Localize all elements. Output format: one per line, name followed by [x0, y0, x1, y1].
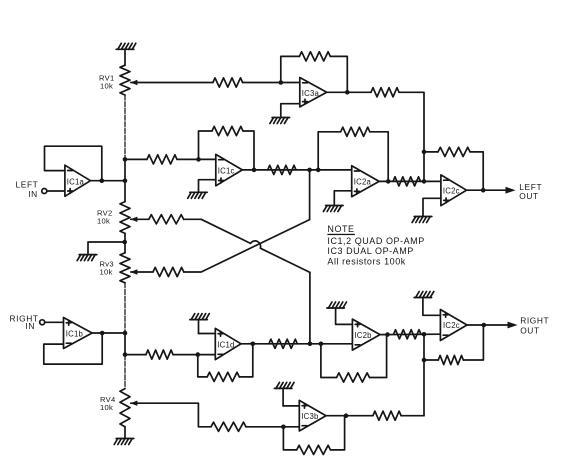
svg-text:OUT: OUT — [519, 191, 538, 201]
wire — [242, 169, 351, 171]
resistor — [393, 177, 421, 186]
wire — [283, 427, 296, 450]
node — [196, 157, 201, 162]
wire — [199, 333, 216, 335]
svg-text:OUT: OUT — [520, 325, 539, 335]
ground — [327, 302, 347, 308]
terminal — [40, 320, 45, 325]
wire — [331, 416, 345, 450]
wire — [45, 146, 102, 181]
resistor — [299, 52, 330, 61]
wire — [379, 180, 441, 182]
wire — [177, 158, 216, 160]
wire — [246, 426, 299, 428]
potentiometer RV4 — [120, 389, 198, 427]
resistor — [394, 330, 422, 339]
wire — [283, 405, 299, 407]
svg-text:IN: IN — [28, 189, 38, 199]
ground — [414, 292, 434, 298]
resistor — [147, 155, 177, 164]
wire — [124, 333, 126, 355]
svg-text:10k: 10k — [100, 81, 113, 90]
wire — [243, 131, 254, 170]
wire — [88, 242, 125, 255]
resistor — [297, 445, 331, 454]
wire — [424, 359, 438, 361]
svg-text:NOTE: NOTE — [327, 224, 354, 234]
op-amp IC1d — [215, 328, 241, 359]
label LEFT OUT — [519, 182, 542, 201]
ground — [274, 382, 294, 388]
wire — [184, 218, 202, 220]
wire — [124, 159, 126, 201]
resistor — [212, 126, 243, 135]
resistor — [149, 215, 184, 224]
wire — [401, 415, 424, 417]
ground — [270, 118, 290, 124]
resistor — [438, 147, 470, 156]
ground — [116, 43, 136, 65]
ground — [412, 217, 432, 223]
resistor — [337, 373, 370, 382]
op-amp IC3b — [299, 400, 326, 431]
label RIGHT IN — [10, 313, 39, 331]
wire — [282, 388, 284, 406]
wire — [198, 320, 200, 334]
label RIGHT OUT — [520, 316, 549, 336]
wire — [326, 415, 373, 417]
potentiometer RV1 — [120, 65, 213, 95]
wire — [91, 180, 126, 182]
label RV2 10k — [97, 208, 113, 225]
op-amp IC2c — [441, 175, 467, 206]
wire — [44, 333, 102, 364]
wire — [399, 92, 424, 181]
wire — [124, 355, 126, 389]
terminal — [42, 189, 47, 194]
wire — [470, 152, 483, 190]
node — [316, 168, 321, 173]
node — [100, 331, 105, 336]
node — [385, 332, 390, 337]
label RV4 10k — [100, 395, 116, 412]
wire — [423, 198, 441, 216]
resistor — [146, 350, 173, 359]
note text — [327, 224, 424, 267]
svg-text:IC3b: IC3b — [301, 412, 319, 421]
op-amp IC1a — [65, 165, 91, 196]
svg-text:IC2c: IC2c — [443, 321, 460, 330]
node — [123, 352, 128, 357]
potentiometer RV2 — [120, 202, 149, 234]
svg-text:IC3a: IC3a — [302, 89, 320, 98]
node — [252, 168, 257, 173]
wire — [463, 325, 483, 360]
label RV1 10k — [99, 74, 115, 91]
wire — [124, 95, 126, 159]
node — [422, 150, 427, 155]
op-amp IC2c — [440, 310, 467, 341]
potentiometer RV3 — [120, 253, 153, 283]
svg-text:IC2c: IC2c — [443, 187, 460, 196]
op-amp IC1b — [64, 318, 93, 349]
wire — [47, 190, 65, 192]
wire — [199, 180, 216, 193]
svg-text:IN: IN — [25, 321, 35, 331]
wire — [239, 344, 253, 377]
svg-text:IC1d: IC1d — [217, 340, 234, 349]
wire — [467, 189, 508, 191]
wire — [198, 403, 211, 427]
node — [344, 413, 349, 418]
wire — [281, 56, 300, 82]
wire — [125, 354, 146, 356]
arrow — [506, 187, 516, 194]
wire — [125, 158, 147, 160]
wire — [334, 191, 351, 206]
wire — [467, 324, 510, 326]
node — [307, 168, 312, 173]
resistor — [373, 411, 401, 420]
svg-text:IC1,2 QUAD OP-AMP: IC1,2 QUAD OP-AMP — [327, 236, 424, 246]
op-amp IC3a — [300, 78, 327, 107]
node — [422, 358, 427, 363]
node — [481, 188, 486, 193]
resistor — [371, 88, 399, 97]
node — [345, 90, 350, 95]
svg-text:10k: 10k — [97, 216, 110, 225]
resistor — [341, 127, 370, 136]
resistor — [153, 267, 184, 276]
svg-text:IC2a: IC2a — [354, 178, 372, 187]
node — [196, 352, 201, 357]
ground — [323, 206, 343, 212]
wire — [309, 272, 311, 343]
wire — [184, 220, 310, 272]
wire — [173, 354, 215, 356]
wire — [321, 344, 337, 378]
wire — [199, 131, 213, 159]
label RV3 10k — [100, 260, 114, 277]
svg-text:IC1c: IC1c — [218, 166, 235, 175]
node — [482, 323, 487, 328]
ground — [77, 255, 97, 261]
node — [123, 178, 128, 183]
op-amp IC1c — [216, 154, 243, 185]
wire — [327, 91, 371, 93]
node — [422, 332, 427, 337]
wire — [423, 334, 425, 415]
wire — [424, 151, 438, 153]
wire — [336, 308, 353, 324]
wire — [318, 132, 341, 170]
node — [251, 342, 256, 347]
wire — [330, 56, 347, 92]
wire — [309, 170, 311, 220]
node — [281, 425, 286, 430]
wire — [243, 82, 300, 84]
resistor — [213, 78, 243, 87]
svg-text:IC2b: IC2b — [354, 331, 372, 340]
node — [122, 240, 127, 245]
label LEFT IN — [16, 180, 39, 199]
node — [100, 178, 105, 183]
wire — [124, 427, 126, 439]
svg-text:IC1a: IC1a — [67, 177, 85, 186]
wire — [241, 343, 352, 345]
wire — [370, 132, 388, 182]
node — [386, 179, 391, 184]
wire — [201, 219, 310, 272]
op-amp IC2b — [352, 319, 380, 350]
wire — [281, 104, 300, 118]
wire — [124, 283, 126, 333]
wire — [370, 335, 387, 378]
svg-text:IC1b: IC1b — [66, 330, 84, 339]
wire — [380, 333, 440, 335]
arrow — [508, 322, 518, 329]
node — [422, 179, 427, 184]
node — [319, 342, 324, 347]
op-amp IC2a — [352, 166, 379, 197]
node — [123, 157, 128, 162]
wire — [423, 298, 441, 316]
svg-text:10k: 10k — [100, 268, 113, 277]
resistor — [438, 355, 463, 364]
wire — [198, 355, 207, 377]
wire — [92, 332, 125, 334]
ground — [190, 314, 210, 320]
svg-text:10k: 10k — [100, 403, 113, 412]
resistor — [207, 372, 239, 381]
svg-text:All resistors 100k: All resistors 100k — [327, 257, 405, 267]
ground — [188, 192, 208, 198]
node — [308, 342, 313, 347]
wire — [124, 233, 126, 252]
resistor — [211, 422, 246, 431]
node — [279, 80, 284, 85]
wire — [45, 321, 64, 323]
svg-text:IC3 DUAL OP-AMP: IC3 DUAL OP-AMP — [327, 246, 413, 256]
svg-text:RIGHT: RIGHT — [520, 316, 549, 326]
ground — [114, 439, 134, 445]
resistor — [269, 339, 297, 348]
resistor — [268, 165, 296, 174]
node — [123, 331, 128, 336]
